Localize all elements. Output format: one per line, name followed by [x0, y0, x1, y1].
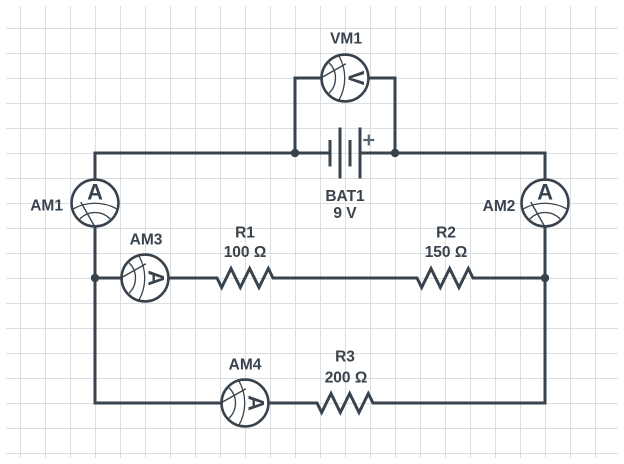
- svg-text:AM1: AM1: [30, 198, 63, 215]
- svg-text:R3: R3: [335, 349, 355, 366]
- svg-text:150 Ω: 150 Ω: [425, 244, 468, 261]
- svg-text:AM2: AM2: [483, 198, 516, 215]
- svg-text:BAT1: BAT1: [325, 188, 365, 205]
- svg-text:VM1: VM1: [330, 31, 362, 48]
- svg-text:AM4: AM4: [229, 357, 262, 374]
- svg-text:R2: R2: [436, 225, 456, 242]
- svg-text:9 V: 9 V: [333, 205, 357, 222]
- svg-text:R1: R1: [235, 225, 255, 242]
- svg-text:200 Ω: 200 Ω: [325, 370, 368, 387]
- svg-text:AM3: AM3: [130, 232, 163, 249]
- svg-text:100 Ω: 100 Ω: [224, 244, 267, 261]
